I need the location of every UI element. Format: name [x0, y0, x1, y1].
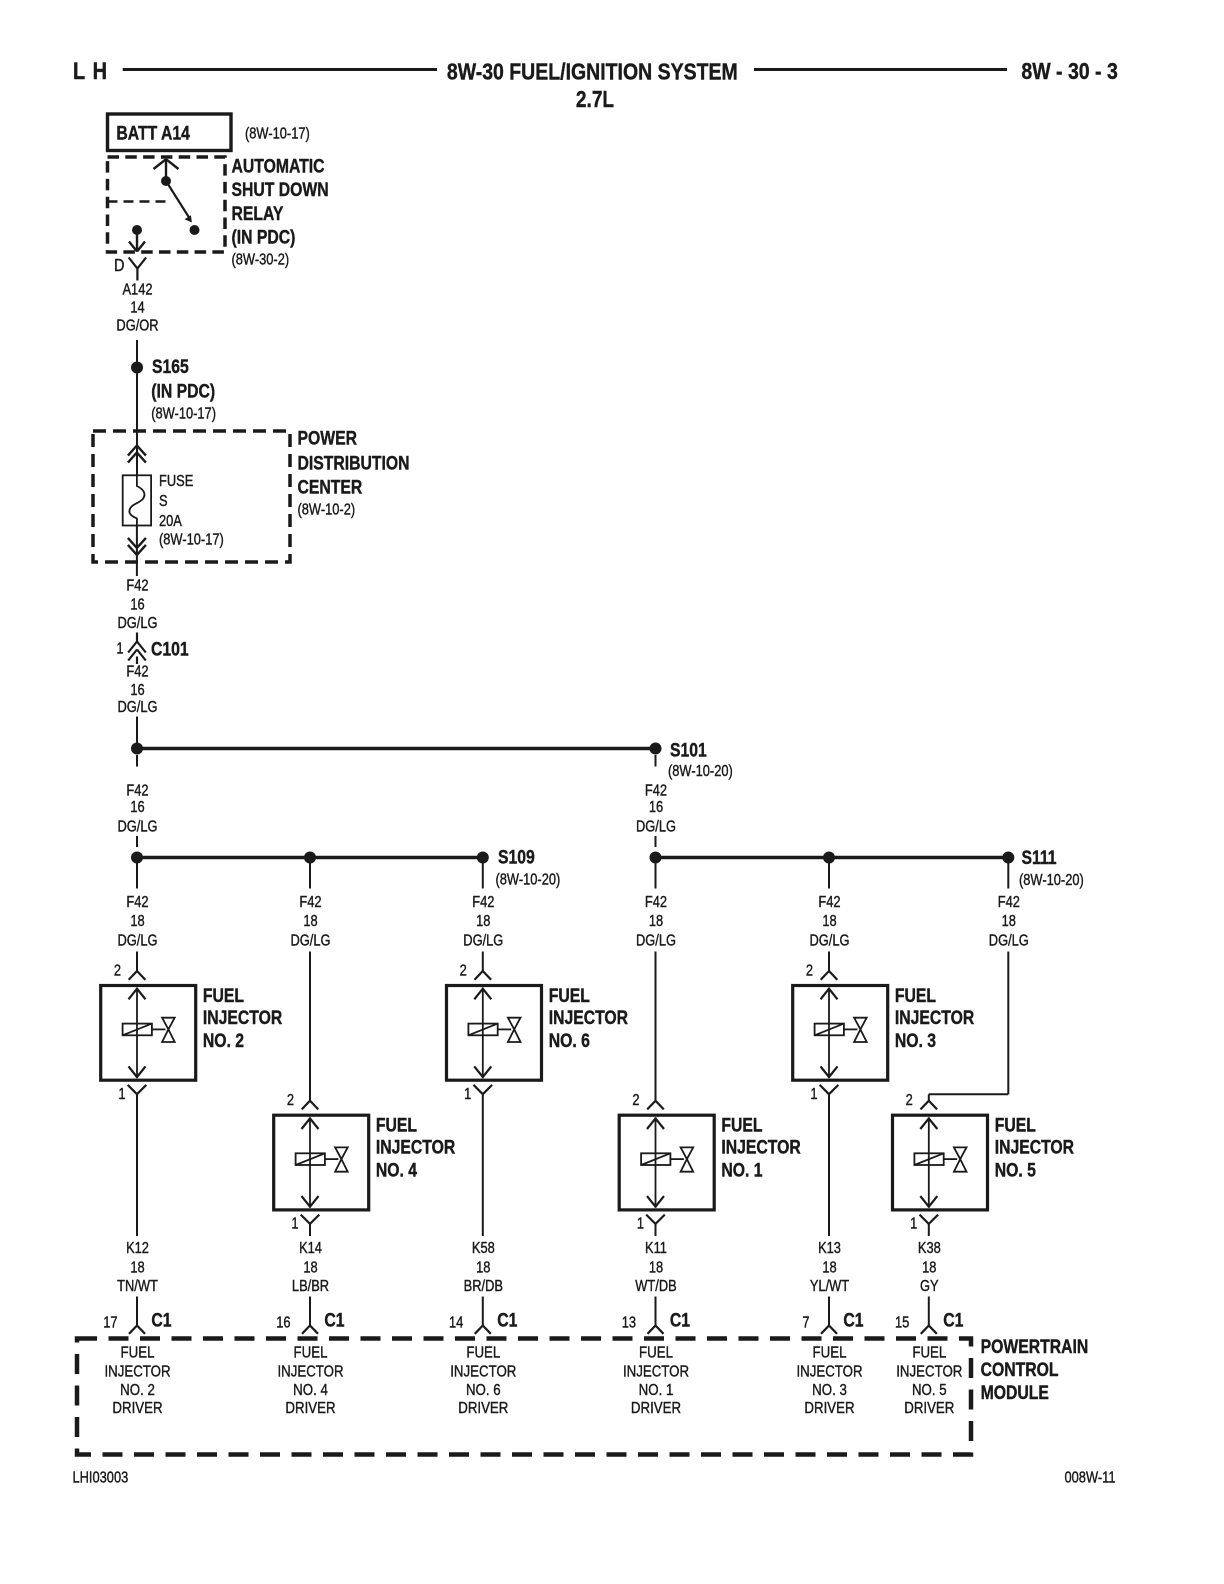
- wire: [828, 863, 830, 889]
- svg-text:POWER: POWER: [298, 427, 358, 449]
- injector arrow up: [474, 989, 483, 1000]
- injector feed line: [152, 1028, 166, 1030]
- svg-text:F42: F42: [126, 578, 148, 595]
- svg-text:18: 18: [1002, 913, 1016, 930]
- injector nozzle valve: [335, 1147, 348, 1159]
- svg-text:S111: S111: [1022, 847, 1057, 869]
- svg-text:2: 2: [114, 962, 121, 979]
- injector arrow up: [129, 989, 138, 1000]
- svg-text:INJECTOR: INJECTOR: [796, 1364, 862, 1381]
- relay contact dot common: [161, 176, 171, 186]
- wire: [828, 952, 830, 972]
- svg-text:DRIVER: DRIVER: [458, 1400, 508, 1417]
- wire: [655, 836, 657, 847]
- svg-text:K12: K12: [126, 1240, 149, 1257]
- connector C101 pin 1: [136, 633, 138, 642]
- injector arrow down: [821, 1066, 830, 1077]
- injector arrow down: [647, 1196, 656, 1207]
- connector C1 pin 13: [655, 1297, 657, 1326]
- svg-text:DISTRIBUTION: DISTRIBUTION: [298, 452, 410, 474]
- injector arrow up: [647, 1118, 656, 1129]
- injector coil: [296, 1153, 325, 1165]
- wire: [136, 1094, 138, 1236]
- svg-text:8W-30 FUEL/IGNITION SYSTEM: 8W-30 FUEL/IGNITION SYSTEM: [447, 58, 738, 85]
- svg-text:1: 1: [118, 1086, 125, 1103]
- svg-text:DRIVER: DRIVER: [904, 1400, 954, 1417]
- connector C1 pin 17: [136, 1297, 138, 1326]
- injector internal wire: [136, 988, 138, 1079]
- junction node: [823, 852, 835, 864]
- svg-text:2: 2: [632, 1092, 639, 1109]
- automatic shut down relay dashed box: [108, 157, 226, 252]
- wire: [828, 1094, 830, 1236]
- svg-text:RELAY: RELAY: [232, 202, 284, 224]
- svg-text:14: 14: [449, 1315, 463, 1332]
- svg-text:INJECTOR: INJECTOR: [623, 1364, 689, 1381]
- svg-text:NO. 6: NO. 6: [549, 1029, 590, 1051]
- svg-text:WT/DB: WT/DB: [635, 1278, 676, 1295]
- svg-text:16: 16: [649, 799, 663, 816]
- svg-text:18: 18: [303, 913, 317, 930]
- svg-text:DG/LG: DG/LG: [117, 932, 157, 949]
- svg-text:LB/BR: LB/BR: [292, 1278, 329, 1295]
- svg-text:NO. 4: NO. 4: [293, 1382, 328, 1399]
- svg-text:2: 2: [906, 1092, 913, 1109]
- svg-text:FUEL: FUEL: [121, 1345, 155, 1362]
- svg-text:16: 16: [276, 1315, 290, 1332]
- header rule left: [123, 68, 437, 71]
- relay contact dot output: [132, 225, 142, 235]
- svg-text:18: 18: [822, 913, 836, 930]
- fuel injector NO. 6 box: [447, 986, 542, 1081]
- svg-text:POWERTRAIN: POWERTRAIN: [981, 1336, 1089, 1358]
- svg-text:FUSE: FUSE: [159, 473, 193, 490]
- wire: [655, 863, 657, 889]
- bus wire right group: [656, 856, 1009, 859]
- wire: [655, 755, 657, 767]
- injector nozzle valve: [162, 1018, 175, 1030]
- svg-text:(8W-10-17): (8W-10-17): [159, 531, 224, 548]
- svg-text:C1: C1: [324, 1309, 344, 1331]
- svg-text:D: D: [114, 256, 124, 276]
- junction node: [131, 743, 143, 755]
- splice S101: [650, 743, 662, 755]
- svg-text:K38: K38: [918, 1240, 941, 1257]
- svg-text:TN/WT: TN/WT: [117, 1278, 158, 1295]
- svg-text:008W-11: 008W-11: [1065, 1470, 1116, 1487]
- svg-text:18: 18: [130, 913, 144, 930]
- injector coil: [815, 1024, 844, 1036]
- injector coil: [641, 1153, 670, 1165]
- battery feed box BATT A14: [108, 114, 232, 151]
- wire: [309, 1224, 311, 1236]
- svg-text:CONTROL: CONTROL: [981, 1359, 1059, 1381]
- svg-text:K13: K13: [818, 1240, 841, 1257]
- wire: [136, 526, 138, 577]
- svg-text:F42: F42: [645, 894, 667, 911]
- svg-text:INJECTOR: INJECTOR: [376, 1136, 456, 1158]
- svg-text:(8W-10-17): (8W-10-17): [151, 406, 216, 423]
- injector arrow up: [302, 1118, 311, 1129]
- wire: [136, 755, 138, 767]
- svg-text:DG/OR: DG/OR: [116, 318, 158, 335]
- svg-text:INJECTOR: INJECTOR: [203, 1006, 283, 1028]
- svg-text:15: 15: [895, 1315, 909, 1332]
- svg-text:INJECTOR: INJECTOR: [721, 1136, 801, 1158]
- svg-text:2.7L: 2.7L: [576, 87, 614, 112]
- injector feed line: [325, 1158, 339, 1160]
- svg-text:AUTOMATIC: AUTOMATIC: [232, 155, 325, 177]
- wire with bend from S111: [1007, 952, 1009, 1095]
- wire: [482, 1094, 484, 1236]
- svg-text:YL/WT: YL/WT: [810, 1278, 850, 1295]
- svg-text:LHI03003: LHI03003: [73, 1470, 129, 1487]
- svg-text:FUEL: FUEL: [376, 1114, 417, 1136]
- svg-text:(8W-10-20): (8W-10-20): [668, 763, 733, 780]
- wire: [309, 952, 311, 1101]
- junction node: [131, 852, 143, 864]
- wire: [136, 952, 138, 972]
- injector internal wire: [482, 988, 484, 1079]
- relay switch blade: [166, 181, 190, 218]
- fuse output double chevron: [128, 538, 137, 548]
- svg-text:NO. 2: NO. 2: [203, 1029, 244, 1051]
- injector arrow down: [474, 1066, 483, 1077]
- connector pin 1: [128, 1085, 137, 1094]
- fuel injector NO. 5 box: [893, 1115, 988, 1210]
- svg-text:F42: F42: [818, 894, 840, 911]
- svg-text:NO. 5: NO. 5: [995, 1159, 1036, 1181]
- powertrain control module dashed box: [77, 1339, 971, 1455]
- svg-text:NO. 2: NO. 2: [120, 1382, 155, 1399]
- svg-text:C1: C1: [497, 1309, 517, 1331]
- relay pin arrow down: [136, 230, 138, 251]
- svg-text:DG/LG: DG/LG: [636, 818, 676, 835]
- wire: [136, 340, 138, 362]
- splice S165: [131, 362, 143, 374]
- svg-text:DG/LG: DG/LG: [117, 615, 157, 632]
- svg-text:C1: C1: [670, 1309, 690, 1331]
- fuel injector NO. 2 box: [101, 986, 196, 1081]
- svg-text:F42: F42: [998, 894, 1020, 911]
- svg-text:DG/LG: DG/LG: [117, 699, 157, 716]
- svg-text:S: S: [159, 493, 168, 510]
- connector pin 1: [474, 1085, 483, 1094]
- svg-text:18: 18: [649, 913, 663, 930]
- svg-text:1: 1: [637, 1216, 644, 1233]
- svg-text:(8W-30-2): (8W-30-2): [232, 251, 290, 268]
- injector arrow down: [920, 1196, 929, 1207]
- svg-text:DRIVER: DRIVER: [285, 1400, 335, 1417]
- injector coil: [123, 1024, 152, 1036]
- junction node: [304, 852, 316, 864]
- svg-text:1: 1: [116, 640, 123, 657]
- injector nozzle valve: [854, 1018, 867, 1030]
- svg-text:2: 2: [460, 962, 467, 979]
- svg-text:NO. 3: NO. 3: [812, 1382, 847, 1399]
- svg-text:18: 18: [649, 1259, 663, 1276]
- svg-text:NO. 3: NO. 3: [895, 1029, 936, 1051]
- svg-text:NO. 6: NO. 6: [466, 1382, 501, 1399]
- svg-text:F42: F42: [472, 894, 494, 911]
- svg-text:DG/LG: DG/LG: [809, 932, 849, 949]
- connector pin 2: [821, 971, 829, 980]
- fuse S 20A body: [123, 475, 151, 525]
- svg-text:F42: F42: [126, 894, 148, 911]
- svg-text:18: 18: [130, 1259, 144, 1276]
- svg-text:18: 18: [476, 1259, 490, 1276]
- svg-text:F42: F42: [645, 782, 667, 799]
- connector C1 pin 15: [928, 1297, 930, 1326]
- connector pin 2: [921, 1101, 929, 1110]
- injector feed line: [844, 1028, 858, 1030]
- svg-text:DG/LG: DG/LG: [290, 932, 330, 949]
- connector pin 1: [646, 1215, 655, 1224]
- svg-text:FUEL: FUEL: [995, 1114, 1036, 1136]
- svg-text:FUEL: FUEL: [813, 1345, 847, 1362]
- wire: [136, 717, 138, 744]
- wire: [1007, 863, 1009, 889]
- connector pin 1: [301, 1215, 310, 1224]
- svg-text:16: 16: [130, 597, 144, 614]
- svg-text:FUEL: FUEL: [639, 1345, 673, 1362]
- svg-text:DG/LG: DG/LG: [463, 932, 503, 949]
- svg-text:7: 7: [802, 1315, 809, 1332]
- svg-text:8W - 30 - 3: 8W - 30 - 3: [1021, 57, 1117, 84]
- wire: [309, 863, 311, 889]
- svg-text:20A: 20A: [159, 513, 182, 530]
- svg-text:FUEL: FUEL: [294, 1345, 328, 1362]
- connector C1 pin 16: [309, 1297, 311, 1326]
- connector pin 1: [820, 1085, 829, 1094]
- injector coil: [468, 1024, 497, 1036]
- fuse element curve: [129, 475, 144, 525]
- svg-text:INJECTOR: INJECTOR: [104, 1364, 170, 1381]
- bus wire to S101: [137, 747, 656, 750]
- wire: [136, 836, 138, 847]
- svg-text:1: 1: [810, 1086, 817, 1103]
- wire: [482, 952, 484, 972]
- wire: [655, 1224, 657, 1236]
- connector pin 2: [475, 971, 483, 980]
- svg-text:FUEL: FUEL: [466, 1345, 500, 1362]
- svg-text:C1: C1: [943, 1309, 963, 1331]
- wire: [136, 863, 138, 889]
- injector arrow down: [302, 1196, 311, 1207]
- injector nozzle valve: [681, 1147, 694, 1159]
- svg-text:BATT A14: BATT A14: [116, 122, 190, 144]
- svg-text:FUEL: FUEL: [895, 984, 936, 1006]
- svg-text:NO. 5: NO. 5: [912, 1382, 947, 1399]
- svg-text:DRIVER: DRIVER: [631, 1400, 681, 1417]
- svg-text:FUEL: FUEL: [721, 1114, 762, 1136]
- svg-text:13: 13: [622, 1315, 636, 1332]
- injector nozzle valve: [508, 1018, 521, 1030]
- svg-text:DRIVER: DRIVER: [112, 1400, 162, 1417]
- header rule right: [754, 68, 1007, 71]
- relay contact dot NO: [190, 225, 200, 235]
- connector pin 2: [302, 1101, 310, 1110]
- svg-text:C1: C1: [151, 1309, 171, 1331]
- injector internal wire: [828, 988, 830, 1079]
- svg-text:MODULE: MODULE: [981, 1382, 1049, 1404]
- relay pin arrow up: [165, 159, 167, 181]
- injector internal wire: [309, 1117, 311, 1208]
- svg-text:K14: K14: [299, 1240, 322, 1257]
- svg-text:FUEL: FUEL: [549, 984, 590, 1006]
- svg-text:NO. 1: NO. 1: [639, 1382, 674, 1399]
- fuel injector NO. 4 box: [274, 1115, 369, 1210]
- svg-text:S165: S165: [152, 356, 189, 378]
- svg-text:2: 2: [287, 1092, 294, 1109]
- svg-text:INJECTOR: INJECTOR: [549, 1006, 629, 1028]
- svg-text:1: 1: [291, 1216, 298, 1233]
- injector feed line: [944, 1158, 958, 1160]
- injector arrow up: [920, 1118, 929, 1129]
- svg-text:F42: F42: [299, 894, 321, 911]
- svg-text:INJECTOR: INJECTOR: [450, 1364, 516, 1381]
- svg-text:LH: LH: [73, 57, 114, 84]
- injector nozzle valve: [954, 1147, 967, 1159]
- svg-text:INJECTOR: INJECTOR: [896, 1364, 962, 1381]
- fuel injector NO. 3 box: [793, 986, 888, 1081]
- svg-text:FUEL: FUEL: [912, 1345, 946, 1362]
- svg-text:DG/LG: DG/LG: [636, 932, 676, 949]
- svg-text:F42: F42: [126, 663, 148, 680]
- svg-text:A142: A142: [122, 281, 152, 298]
- relay internal divider: [108, 200, 167, 202]
- svg-text:(8W-10-2): (8W-10-2): [298, 501, 356, 518]
- injector feed line: [498, 1028, 512, 1030]
- svg-text:14: 14: [130, 299, 144, 316]
- svg-text:C101: C101: [151, 638, 189, 660]
- connector pin 2: [129, 971, 137, 980]
- svg-text:CENTER: CENTER: [298, 476, 363, 498]
- power distribution center dashed box: [93, 431, 290, 562]
- injector arrow up: [821, 989, 830, 1000]
- fuel injector NO. 1 box: [619, 1115, 714, 1210]
- wire: [482, 863, 484, 889]
- svg-text:GY: GY: [920, 1278, 939, 1295]
- wire: [928, 1224, 930, 1236]
- svg-text:(8W-10-20): (8W-10-20): [1019, 872, 1084, 889]
- svg-text:(IN PDC): (IN PDC): [232, 226, 296, 248]
- svg-text:FUEL: FUEL: [203, 984, 244, 1006]
- injector coil: [914, 1153, 943, 1165]
- svg-text:BR/DB: BR/DB: [464, 1278, 503, 1295]
- svg-text:K11: K11: [645, 1240, 667, 1257]
- wire: [136, 374, 138, 477]
- injector internal wire: [928, 1117, 930, 1208]
- connector C1 pin 14: [482, 1297, 484, 1326]
- svg-text:INJECTOR: INJECTOR: [895, 1006, 975, 1028]
- injector arrow down: [129, 1066, 138, 1077]
- svg-text:16: 16: [130, 799, 144, 816]
- connector C1 pin 7: [828, 1297, 830, 1326]
- svg-text:C1: C1: [843, 1309, 863, 1331]
- bus wire left group: [137, 856, 483, 859]
- svg-text:1: 1: [910, 1216, 917, 1233]
- svg-text:1: 1: [464, 1086, 471, 1103]
- svg-text:S109: S109: [498, 846, 535, 868]
- svg-text:NO. 4: NO. 4: [376, 1159, 417, 1181]
- injector internal wire: [655, 1117, 657, 1208]
- svg-text:S101: S101: [670, 739, 707, 761]
- svg-text:(8W-10-17): (8W-10-17): [245, 125, 310, 142]
- svg-text:2: 2: [806, 962, 813, 979]
- svg-text:NO. 1: NO. 1: [721, 1159, 762, 1181]
- svg-text:F42: F42: [126, 782, 148, 799]
- svg-text:K58: K58: [472, 1240, 495, 1257]
- wire: [655, 952, 657, 1101]
- svg-text:DG/LG: DG/LG: [989, 932, 1029, 949]
- svg-text:SHUT DOWN: SHUT DOWN: [232, 179, 329, 201]
- fuse feed double chevron: [128, 446, 137, 456]
- svg-text:18: 18: [476, 913, 490, 930]
- svg-text:17: 17: [103, 1315, 117, 1332]
- svg-text:(IN PDC): (IN PDC): [151, 380, 215, 402]
- splice S111: [1002, 852, 1014, 864]
- splice S109: [477, 852, 489, 864]
- svg-text:18: 18: [922, 1259, 936, 1276]
- svg-text:18: 18: [822, 1259, 836, 1276]
- svg-text:16: 16: [130, 682, 144, 699]
- svg-text:(8W-10-20): (8W-10-20): [496, 871, 561, 888]
- svg-text:DRIVER: DRIVER: [804, 1400, 854, 1417]
- connector pin 1: [920, 1215, 929, 1224]
- svg-text:18: 18: [303, 1259, 317, 1276]
- connector D: [129, 258, 138, 269]
- svg-text:DG/LG: DG/LG: [117, 818, 157, 835]
- injector feed line: [670, 1158, 684, 1160]
- connector pin 2: [647, 1101, 655, 1110]
- junction node: [650, 852, 662, 864]
- svg-text:INJECTOR: INJECTOR: [277, 1364, 343, 1381]
- svg-text:INJECTOR: INJECTOR: [995, 1136, 1075, 1158]
